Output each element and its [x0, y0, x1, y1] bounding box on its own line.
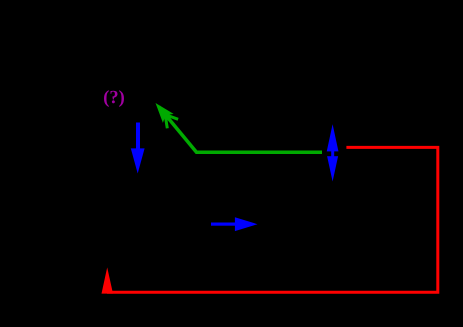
blue shaft bridge through notch [331, 151, 334, 157]
blue double-headed vertical arrow [326, 124, 338, 181]
green arrowhead (double) [156, 103, 179, 128]
black level line notch over blue arrow [323, 151, 348, 156]
blue right arrow [211, 217, 258, 231]
blue down arrow [131, 123, 145, 174]
red cycle path [107, 147, 438, 292]
red up arrowhead [102, 267, 114, 293]
label (?) [104, 90, 124, 107]
green arrow [159, 107, 322, 152]
